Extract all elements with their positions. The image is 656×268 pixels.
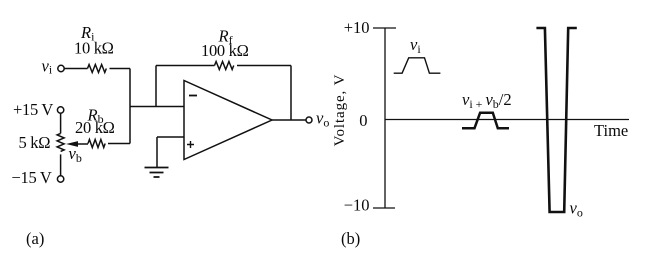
svg-text:0: 0: [359, 111, 367, 130]
svg-text:vb: vb: [69, 144, 82, 165]
wire feedback top right: [237, 65, 291, 67]
wire node to inverting input: [130, 106, 184, 108]
svg-text:20 kΩ: 20 kΩ: [75, 118, 115, 137]
svg-text:vi: vi: [410, 35, 421, 56]
wire to ground: [156, 137, 158, 168]
op-amp plus sign: [187, 141, 194, 148]
svg-text:(b): (b): [341, 229, 360, 248]
wire feedback left vertical: [155, 66, 157, 107]
svg-text:Time: Time: [594, 121, 628, 140]
terminal vi: [58, 65, 64, 71]
wire noninverting input: [157, 136, 184, 138]
svg-text:5 kΩ: 5 kΩ: [19, 133, 51, 152]
svg-text:vo: vo: [570, 199, 583, 220]
waveform vi: [394, 58, 441, 73]
waveform vo: [536, 28, 576, 212]
wire potentiometer to -15V: [60, 154, 62, 176]
svg-text:(a): (a): [26, 229, 44, 248]
op-amp minus sign: [189, 95, 197, 97]
svg-text:10 kΩ: 10 kΩ: [74, 38, 114, 57]
op-amp U1: [184, 81, 272, 160]
graph tick -10: [373, 207, 395, 209]
terminal vo: [306, 117, 312, 123]
wire output: [272, 119, 306, 121]
wire +15V to potentiometer: [60, 113, 62, 133]
terminal +15V: [57, 107, 63, 113]
graph x-axis: [385, 119, 629, 121]
svg-text:+15 V: +15 V: [13, 100, 53, 119]
svg-text:vo: vo: [316, 109, 329, 130]
potentiometer 5 kOhm: [57, 133, 64, 151]
svg-text:Voltage, V: Voltage, V: [332, 74, 348, 147]
svg-text:100 kΩ: 100 kΩ: [201, 41, 249, 60]
wire feedback top left: [156, 65, 215, 67]
svg-text:−10: −10: [344, 195, 370, 214]
wire vertical node bus: [129, 69, 131, 144]
svg-text:+10: +10: [344, 18, 370, 37]
graph tick +10: [373, 27, 396, 29]
wire vi to Ri: [64, 68, 88, 70]
resistor Rf: [215, 62, 234, 70]
wire feedback right vertical: [290, 66, 292, 121]
terminal -15V: [57, 176, 63, 182]
resistor Ri: [88, 65, 107, 73]
ground: [145, 168, 169, 178]
wiper arrow: [78, 143, 88, 145]
wire Rb to node: [108, 143, 130, 145]
waveform vi+vb/2: [462, 113, 509, 128]
svg-text:−15 V: −15 V: [12, 168, 52, 187]
resistor Rb: [88, 140, 105, 148]
svg-text:vi: vi: [42, 57, 53, 77]
wire Ri to node corner: [110, 68, 131, 70]
svg-text:vi + vb/2: vi + vb/2: [462, 90, 512, 111]
graph y-axis: [384, 28, 386, 208]
